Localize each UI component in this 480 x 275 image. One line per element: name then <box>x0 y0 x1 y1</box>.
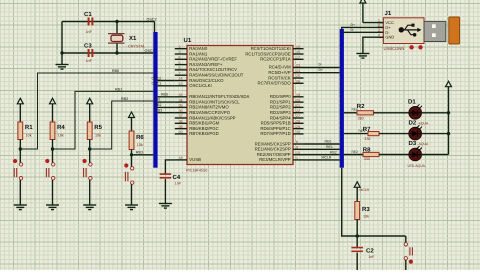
J1 marker dots <box>409 45 413 49</box>
U1 pin 39 RB6/KBI2/PGC <box>175 128 187 130</box>
svg-text:4: 4 <box>378 33 380 37</box>
bus (vertical, right of U1) <box>340 29 344 168</box>
svg-text:33: 33 <box>179 93 183 97</box>
svg-text:16: 16 <box>296 50 300 54</box>
svg-text:RA6/OSC2/CLKO: RA6/OSC2/CLKO <box>189 78 224 83</box>
svg-text:-AQUA: -AQUA <box>418 121 429 125</box>
wire D+ pin 24 to bus <box>304 72 340 74</box>
J1 pin 3 D- <box>378 31 384 33</box>
svg-text:28: 28 <box>296 120 300 124</box>
svg-text:14: 14 <box>179 77 183 81</box>
wire OSC1 bus to pin 13 <box>158 85 175 87</box>
svg-text:D2: D2 <box>409 120 417 127</box>
push button (column R6) <box>124 163 134 184</box>
svg-text:330: 330 <box>364 157 370 161</box>
wire OSC2 drop into bus <box>154 22 156 34</box>
wire VUSB to C4 <box>165 160 174 174</box>
ground <box>14 205 27 210</box>
svg-text:40: 40 <box>179 130 183 134</box>
power arrow (R6 pull-up) <box>129 112 135 118</box>
svg-text:D+: D+ <box>351 23 356 27</box>
capacitor C4 <box>160 173 172 178</box>
svg-text:RB4/AN11/KBI0/CSSPP: RB4/AN11/KBI0/CSSPP <box>189 115 235 120</box>
svg-text:OSC1: OSC1 <box>145 49 155 53</box>
svg-text:PIC18F4550: PIC18F4550 <box>186 169 207 173</box>
svg-text:34: 34 <box>179 98 183 102</box>
svg-text:15: 15 <box>296 45 300 49</box>
svg-text:2: 2 <box>179 45 181 49</box>
svg-text:RD6/SPP6/P1C: RD6/SPP6/P1C <box>260 126 290 131</box>
junction RB3 <box>130 153 133 156</box>
svg-text:1nF: 1nF <box>368 255 375 259</box>
svg-text:10k: 10k <box>26 134 32 138</box>
U1 pin 22 RD3/SPP3 <box>293 112 304 114</box>
U1 pin 2 RA0/AN0 <box>175 48 187 50</box>
wire net RB3 <box>132 154 154 156</box>
U1 pin 25 RC6/TX/CK <box>293 77 304 79</box>
svg-text:35: 35 <box>179 104 183 108</box>
U1 pin 20 RD1/SPP1 <box>293 101 304 103</box>
svg-text:27: 27 <box>296 114 300 118</box>
wire RB0 bus to pin 33 <box>158 96 175 98</box>
wire RB3 bus to pin 36 <box>158 112 175 114</box>
svg-text:10: 10 <box>296 151 300 155</box>
svg-text:26: 26 <box>296 80 300 84</box>
svg-text:7: 7 <box>179 71 181 75</box>
LED D3 <box>409 146 422 161</box>
wire power to R3 <box>356 187 358 202</box>
svg-text:C4: C4 <box>173 174 181 181</box>
ground (C4) <box>159 204 172 209</box>
svg-text:RB5/KBI1/PGM: RB5/KBI1/PGM <box>189 121 219 126</box>
USB plug (metal shield) <box>424 21 446 41</box>
resistor R5 <box>87 122 92 140</box>
J1 pin 1 VCC <box>378 22 384 24</box>
svg-text:RA2/AN2/VREF-/CVREF: RA2/AN2/VREF-/CVREF <box>189 57 237 62</box>
wire RE1 pin 9 to bus <box>304 148 340 150</box>
wire net RB1 <box>53 91 154 149</box>
svg-text:RD2/SPP2: RD2/SPP2 <box>270 105 291 110</box>
resistor R4 <box>50 122 55 140</box>
resistor R7 330 <box>368 132 379 136</box>
U1 pin VUSB <box>175 159 187 161</box>
wire net RE1 bus to R7 <box>344 133 368 135</box>
svg-text:LED-AQUA: LED-AQUA <box>408 164 426 168</box>
wire D2 to rail <box>421 133 449 135</box>
U1 pin 29 RD6/SPP6/P1C <box>293 128 304 130</box>
svg-text:R3: R3 <box>362 206 370 213</box>
wire C2 down <box>356 253 358 270</box>
wire R7 to D2 <box>379 133 410 135</box>
svg-text:D+: D+ <box>319 68 324 72</box>
svg-text:OSC2: OSC2 <box>152 76 162 80</box>
wire switch to ground <box>131 184 133 205</box>
svg-text:CRYSTAL: CRYSTAL <box>128 45 145 49</box>
svg-text:2: 2 <box>378 23 380 27</box>
svg-text:13: 13 <box>179 82 183 86</box>
svg-text:39: 39 <box>179 125 183 129</box>
U1 pin 6 RA4/T0CKI/C1OUT/RCV <box>175 69 187 71</box>
resistor R1 <box>18 122 23 140</box>
svg-text:37: 37 <box>179 114 183 118</box>
svg-text:30: 30 <box>296 130 300 134</box>
U1 pin 40 RB7/KBI3/PGD <box>175 133 187 135</box>
svg-text:RB2: RB2 <box>155 103 162 107</box>
svg-text:RE0/AN5/CK1SPP: RE0/AN5/CK1SPP <box>255 141 291 146</box>
wire net RB0 <box>20 73 153 149</box>
svg-text:RB2/AN8/INT2/VMO: RB2/AN8/INT2/VMO <box>189 105 229 110</box>
svg-text:RC6/TX/CK: RC6/TX/CK <box>268 75 291 80</box>
svg-text:29: 29 <box>296 125 300 129</box>
LED D2 <box>409 125 422 140</box>
junction left rail <box>60 51 63 54</box>
svg-text:20: 20 <box>296 98 300 102</box>
svg-text:MCLR: MCLR <box>360 188 370 192</box>
svg-text:RB1/AN10/INT1/SCK/SCL: RB1/AN10/INT1/SCK/SCL <box>189 99 240 104</box>
junction rail D2 <box>447 132 450 135</box>
resistor R3 <box>355 202 360 220</box>
svg-text:RC1/T1OSI/CCP2/UOE: RC1/T1OSI/CCP2/UOE <box>245 51 291 56</box>
capacitor C2 <box>351 247 363 252</box>
svg-text:6: 6 <box>179 66 181 70</box>
U1 pin 35 RB2/AN8/INT2/VMO <box>175 106 187 108</box>
crystal X1 <box>108 22 125 54</box>
svg-text:OSC1: OSC1 <box>152 82 162 86</box>
capacitor C3 <box>88 49 94 57</box>
wire power to resistor <box>19 104 21 123</box>
svg-text:R2: R2 <box>357 103 365 110</box>
svg-text:25: 25 <box>296 74 300 78</box>
svg-text:R1: R1 <box>25 124 33 131</box>
power arrow (R1 pull-up) <box>17 98 23 104</box>
wire switch to ground <box>89 180 91 205</box>
wire net RE2 bus to R8 <box>344 154 363 156</box>
wire RB1 bus to pin 34 <box>158 101 175 103</box>
svg-text:8: 8 <box>296 140 298 144</box>
svg-text:U1: U1 <box>184 37 192 44</box>
ground <box>125 205 138 210</box>
svg-text:RA5/AN4/SS/LVDIN/C2OUT: RA5/AN4/SS/LVDIN/C2OUT <box>189 73 243 78</box>
U1 pin 24 RC5/D+/VP <box>293 72 304 74</box>
ground <box>46 205 59 210</box>
wire MCLR net to R3/C2/button <box>342 168 406 236</box>
power arrow (LED rail) <box>446 81 452 87</box>
wire net RE0 bus to R2 <box>344 112 357 114</box>
J1 pin 2 D+ <box>378 26 384 28</box>
LED D1 <box>409 104 422 119</box>
power arrow (R5 pull-up) <box>87 98 93 104</box>
wire D1 to rail <box>421 112 449 114</box>
svg-text:C1: C1 <box>84 11 92 18</box>
svg-text:10k: 10k <box>58 134 64 138</box>
svg-text:RE2/AN7/OESPP: RE2/AN7/OESPP <box>257 152 291 157</box>
USB trident icon <box>399 24 422 37</box>
svg-text:RC2/CCP1/P1A: RC2/CCP1/P1A <box>260 57 291 62</box>
svg-text:22: 22 <box>296 109 300 113</box>
junction crystal-top <box>115 20 118 23</box>
svg-text:MCLR: MCLR <box>322 156 332 160</box>
J1 pin 4 GND <box>378 36 384 38</box>
capacitor C1 <box>88 18 94 26</box>
power arrow (R4 pull-up) <box>50 98 56 104</box>
junction crystal-bottom <box>115 51 118 54</box>
ground (crystal caps) <box>56 65 69 70</box>
power arrow (MCLR pull-up) <box>354 182 360 188</box>
svg-text:RC5/D+/VP: RC5/D+/VP <box>268 70 290 75</box>
svg-text:21: 21 <box>296 104 300 108</box>
U1 pin 10 RE2/AN7/OESPP <box>293 154 304 156</box>
USB connector J1 body <box>383 18 424 44</box>
svg-text:RD0/SPP0: RD0/SPP0 <box>270 94 291 99</box>
svg-text:RB0: RB0 <box>161 92 168 96</box>
svg-text:19: 19 <box>296 93 300 97</box>
svg-text:1: 1 <box>296 156 298 160</box>
wire OSC2 top rail <box>62 21 155 23</box>
svg-text:1nF: 1nF <box>86 59 93 63</box>
svg-text:C2: C2 <box>366 248 374 255</box>
svg-text:R6: R6 <box>136 134 144 141</box>
wire switch to ground <box>19 180 21 205</box>
svg-text:RB1: RB1 <box>154 98 161 102</box>
svg-text:1nF: 1nF <box>86 30 93 34</box>
svg-text:RB3: RB3 <box>136 151 143 155</box>
svg-text:38: 38 <box>179 120 183 124</box>
push button (MCLR reset) <box>405 236 407 243</box>
svg-text:RA3/AN3/VREF+: RA3/AN3/VREF+ <box>189 62 223 67</box>
svg-text:X1: X1 <box>129 35 137 42</box>
svg-text:J1: J1 <box>385 10 392 17</box>
wire VCC down <box>362 3 364 23</box>
svg-text:RD7/SPP7/P1D: RD7/SPP7/P1D <box>260 131 290 136</box>
svg-text:24: 24 <box>296 69 300 73</box>
push button (column R5) <box>82 159 92 180</box>
USB plug overmold (orange) <box>449 17 460 44</box>
svg-text:9: 9 <box>296 146 298 150</box>
wire LED cathode rail <box>448 86 450 154</box>
U1 pin 37 RB4/AN11/KBI0/CSSPP <box>175 117 187 119</box>
svg-text:10k: 10k <box>363 215 369 219</box>
svg-text:18: 18 <box>179 156 183 160</box>
svg-text:1nF: 1nF <box>175 182 182 186</box>
wire D- pin 23 to bus <box>304 66 340 68</box>
wire button down <box>405 260 407 270</box>
svg-text:1: 1 <box>378 19 380 23</box>
svg-text:23: 23 <box>296 64 300 68</box>
wire OSC1 bottom rail <box>62 52 153 54</box>
svg-text:3: 3 <box>179 50 181 54</box>
svg-text:RB3/AN9/CCP2/VPO: RB3/AN9/CCP2/VPO <box>189 110 230 115</box>
wire D- bus to pin 3 <box>342 31 384 33</box>
svg-text:RD1/SPP1: RD1/SPP1 <box>270 99 291 104</box>
svg-text:RB2: RB2 <box>121 97 128 101</box>
wire left vertical to ground <box>61 22 63 65</box>
junction RB1 <box>51 147 54 150</box>
svg-text:RE3/MCLR/VPP: RE3/MCLR/VPP <box>259 157 291 162</box>
svg-text:RA0/AN0: RA0/AN0 <box>189 46 208 51</box>
push button (column R1) <box>13 159 23 180</box>
svg-text:RB6/KBI2/PGC: RB6/KBI2/PGC <box>189 126 218 131</box>
U1 pin 33 RB0/AN12/INT0/FLT0/SDI/SDA <box>175 96 187 98</box>
svg-text:RB1: RB1 <box>115 87 122 91</box>
svg-text:USBCONN: USBCONN <box>384 46 405 51</box>
U1 pin 13 OSC1/CLKI <box>175 85 187 87</box>
svg-text:10k: 10k <box>137 143 143 147</box>
U1 pin 21 RD2/SPP2 <box>293 106 304 108</box>
resistor R8 330 <box>363 152 379 156</box>
wire RE2 pin 10 to bus <box>304 154 340 156</box>
svg-text:RE0: RE0 <box>325 140 332 144</box>
svg-text:OSC2: OSC2 <box>147 17 157 21</box>
svg-text:-AQUA: -AQUA <box>418 142 429 146</box>
junction RB2 <box>88 147 91 150</box>
U1 pin 16 RC1/T1OSI/CCP2/UOE <box>293 53 304 55</box>
U1 pin 4 RA2/AN2/VREF-/CVREF <box>175 58 187 60</box>
U1 pin 15 RC0/T1OSO/T13CKI <box>293 48 304 50</box>
svg-text:4: 4 <box>179 56 181 60</box>
U1 pin 38 RB5/KBI1/PGM <box>175 122 187 124</box>
svg-text:RC7/RX/DT/SDO: RC7/RX/DT/SDO <box>258 81 292 86</box>
U1 pin 19 RD0/SPP0 <box>293 96 304 98</box>
wire power to resistor <box>52 104 54 123</box>
svg-text:R8: R8 <box>363 146 371 153</box>
junction R3/C2 <box>356 234 359 237</box>
svg-text:RE2: RE2 <box>330 150 337 154</box>
svg-text:RA4/T0CKI/C1OUT/RCV: RA4/T0CKI/C1OUT/RCV <box>189 67 237 72</box>
svg-text:RB0/AN12/INT0/FLT0/SDI/SDA: RB0/AN12/INT0/FLT0/SDI/SDA <box>189 94 249 99</box>
svg-text:RC4/D-/VM: RC4/D-/VM <box>269 65 291 70</box>
wire R6 to switch <box>131 150 133 168</box>
U1 pin 1 RE3/MCLR/VPP <box>293 159 304 161</box>
U1 pin 30 RD7/SPP7/P1D <box>293 133 304 135</box>
svg-text:RD3/SPP3: RD3/SPP3 <box>270 110 291 115</box>
wire resistor to switch <box>19 140 21 164</box>
wire C4 to ground <box>164 179 166 204</box>
U1 pin 28 RD5/SPP5/P1B <box>293 122 304 124</box>
wire RE0 pin 8 to bus <box>304 143 340 145</box>
svg-text:R7: R7 <box>363 126 371 133</box>
U1 pin 8 RE0/AN5/CK1SPP <box>293 143 304 145</box>
wire MCLR pin 1 to bus <box>304 159 340 161</box>
svg-text:RE2: RE2 <box>352 150 359 154</box>
wire OSC2 bus to pin 14 <box>158 80 175 82</box>
wire resistor to switch <box>89 140 91 164</box>
svg-text:D1: D1 <box>408 99 416 106</box>
svg-text:R5: R5 <box>94 124 102 131</box>
wire power to R6 <box>131 117 133 131</box>
U1 pin 5 RA3/AN3/VREF+ <box>175 64 187 66</box>
svg-text:VUSB: VUSB <box>189 157 201 162</box>
ground (J1) <box>356 54 369 59</box>
svg-text:RB7/KBI3/PGD: RB7/KBI3/PGD <box>189 131 218 136</box>
svg-text:330: 330 <box>364 137 370 141</box>
svg-text:17: 17 <box>296 56 300 60</box>
svg-text:36: 36 <box>179 109 183 113</box>
wire resistor to switch <box>52 140 54 164</box>
bus (vertical, left of U1) <box>153 32 157 168</box>
resistor R6 <box>129 131 134 150</box>
svg-text:RC0/T1OSO/T13CKI: RC0/T1OSO/T13CKI <box>251 46 291 51</box>
svg-text:RD5/SPP5/P1B: RD5/SPP5/P1B <box>261 121 291 126</box>
wire R8 to D3 <box>379 154 410 156</box>
push button (column R4) <box>45 159 55 180</box>
svg-text:RB0: RB0 <box>112 69 119 73</box>
wire net RB2 <box>90 101 154 149</box>
U1 pin 27 RD4/SPP4 <box>293 117 304 119</box>
svg-text:RD4/SPP4: RD4/SPP4 <box>270 115 291 120</box>
op IC U1 PIC18F4550 body <box>187 46 293 165</box>
svg-text:OSC1/CLKI: OSC1/CLKI <box>189 83 211 88</box>
svg-text:330: 330 <box>358 116 364 120</box>
junction rail D1 <box>447 111 450 114</box>
resistor R2 330 <box>357 111 374 115</box>
svg-text:GND: GND <box>385 35 394 40</box>
wire switch to ground <box>52 180 54 205</box>
svg-text:D3: D3 <box>409 140 417 147</box>
svg-text:C3: C3 <box>84 43 92 50</box>
svg-text:RB3: RB3 <box>155 108 162 112</box>
wire R3 to C2 <box>356 220 358 248</box>
U1 pin 23 RC4/D-/VM <box>293 66 304 68</box>
svg-text:R4: R4 <box>57 124 65 131</box>
svg-text:RE1/AN6/CK2SPP: RE1/AN6/CK2SPP <box>255 147 291 152</box>
U1 pin 36 RB3/AN9/CCP2/VPO <box>175 112 187 114</box>
svg-text:RE1: RE1 <box>326 145 333 149</box>
U1 pin 7 RA5/AN4/SS/LVDIN/C2OUT <box>175 74 187 76</box>
ground <box>83 205 96 210</box>
svg-text:3: 3 <box>378 28 380 32</box>
svg-text:5: 5 <box>179 61 181 65</box>
wire GND pin 4 <box>363 37 384 53</box>
wire RB2 bus to pin 35 <box>158 106 175 108</box>
wire VCC to pin 1 <box>363 22 384 24</box>
wire R2 to D1 <box>374 112 410 114</box>
wire D3 to rail <box>421 154 449 156</box>
svg-text:RA1/AN1: RA1/AN1 <box>189 51 208 56</box>
U1 pin 14 RA6/OSC2/CLKO <box>175 80 187 82</box>
U1 pin 3 RA1/AN1 <box>175 53 187 55</box>
junction RB0 <box>19 147 22 150</box>
U1 pin 17 RC2/CCP1/P1A <box>293 58 304 60</box>
wire D+ bus to pin 2 <box>342 27 384 29</box>
U1 pin 34 RB1/AN10/INT1/SCK/SCL <box>175 101 187 103</box>
wire power to resistor <box>89 104 91 123</box>
power arrow VCC (J1) <box>360 0 366 3</box>
U1 pin 26 RC7/RX/DT/SDO <box>293 82 304 84</box>
svg-text:10k: 10k <box>95 134 101 138</box>
U1 pin 9 RE1/AN6/CK2SPP <box>293 148 304 150</box>
